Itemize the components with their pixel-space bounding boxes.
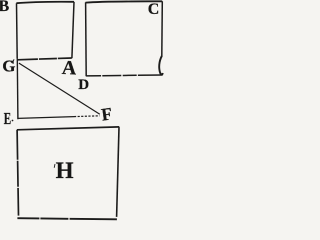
svg-text:D: D xyxy=(78,77,89,93)
svg-text:E: E xyxy=(4,109,11,128)
svg-text:G: G xyxy=(2,57,15,76)
svg-text:B: B xyxy=(0,0,10,15)
svg-text:A: A xyxy=(61,57,77,80)
svg-text:H: H xyxy=(56,158,74,183)
svg-text:C: C xyxy=(148,1,160,18)
